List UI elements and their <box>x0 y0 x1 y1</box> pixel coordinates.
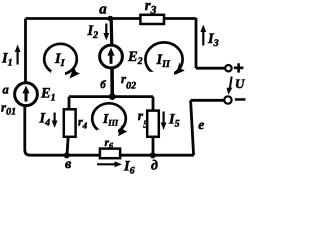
resistor r5 <box>147 111 159 137</box>
node a dot <box>108 16 114 22</box>
wire r5 bottom stub to node d <box>152 137 155 156</box>
source E2 circle <box>100 45 123 68</box>
arrow current I6 <box>97 163 116 165</box>
terminal minus circle <box>224 96 231 103</box>
source E1 circle <box>15 83 38 106</box>
wire r4 top stub <box>68 97 71 110</box>
node d dot <box>150 152 156 158</box>
wire middle horizontal b rail <box>69 95 153 98</box>
loop current arc I_III <box>92 103 126 133</box>
svg-text:a: a <box>99 1 107 17</box>
loop current arc I_I <box>44 44 77 74</box>
wire left vertical to E1 <box>24 19 27 84</box>
arrow current I5 <box>163 112 165 124</box>
svg-text:U: U <box>235 76 245 91</box>
source E2 arrow <box>110 54 113 64</box>
arrow current I1 <box>17 51 19 65</box>
plus sign <box>234 63 244 72</box>
wire node a down to E2 <box>110 19 114 46</box>
arrow current I4 <box>53 113 55 122</box>
wire to plus terminal <box>196 67 225 70</box>
svg-text:д: д <box>151 158 158 173</box>
resistor r3 <box>140 15 164 24</box>
node v dot <box>64 152 70 158</box>
wire E1 bottom to left corner and bottom rail <box>25 106 194 156</box>
node b junction dot <box>109 93 116 100</box>
resistor r4 <box>64 109 76 137</box>
resistor r6 <box>100 149 120 159</box>
wire E2 bottom to node b junction <box>110 68 114 97</box>
svg-text:a: a <box>3 83 9 97</box>
loop current arc I_II <box>145 42 182 76</box>
wire r4 bottom stub to node v <box>67 137 68 156</box>
wire minus terminal to right vertical <box>191 99 224 102</box>
arrow current I2 <box>105 24 107 34</box>
arrow voltage U <box>230 77 232 89</box>
wire top (node a rail) <box>26 17 197 20</box>
minus sign <box>235 98 246 101</box>
svg-text:e: e <box>198 117 204 132</box>
svg-text:в: в <box>65 157 72 172</box>
wire r5 top stub <box>152 97 155 111</box>
source E1 arrow <box>25 92 28 102</box>
terminal plus circle <box>225 65 231 71</box>
wire right vertical from top rail <box>195 18 198 68</box>
arrow current I3 <box>202 32 204 46</box>
svg-text:б: б <box>100 79 106 91</box>
wire right vertical down to bottom rail <box>191 100 194 155</box>
